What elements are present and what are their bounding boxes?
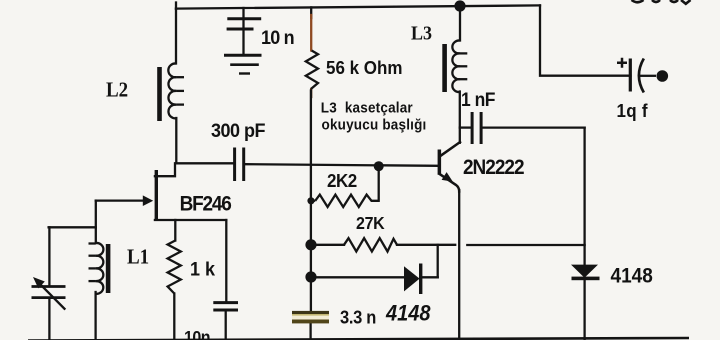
svg-text:2N2222: 2N2222 (463, 156, 524, 179)
svg-text:10 n: 10 n (261, 27, 294, 49)
svg-text:okuyucu başlığı: okuyucu başlığı (322, 117, 427, 134)
svg-text:4148: 4148 (385, 302, 431, 326)
svg-text:BF246: BF246 (180, 193, 232, 216)
svg-text:L3: L3 (411, 23, 432, 45)
svg-text:L1: L1 (127, 246, 149, 269)
svg-text:3.3 n: 3.3 n (340, 307, 376, 328)
svg-text:27K: 27K (356, 213, 385, 233)
svg-text:56 k Ohm: 56 k Ohm (326, 57, 402, 78)
svg-text:10n: 10n (184, 327, 210, 340)
svg-text:300 pF: 300 pF (211, 120, 265, 142)
svg-text:2K2: 2K2 (327, 170, 357, 191)
svg-text:1 nF: 1 nF (461, 88, 495, 110)
svg-text:L2: L2 (106, 79, 128, 102)
svg-text:L3 kasetçalar: L3 kasetçalar (321, 100, 413, 117)
svg-text:1q f: 1q f (617, 100, 648, 121)
svg-text:1 k: 1 k (190, 259, 215, 281)
svg-text:4148: 4148 (611, 265, 653, 288)
